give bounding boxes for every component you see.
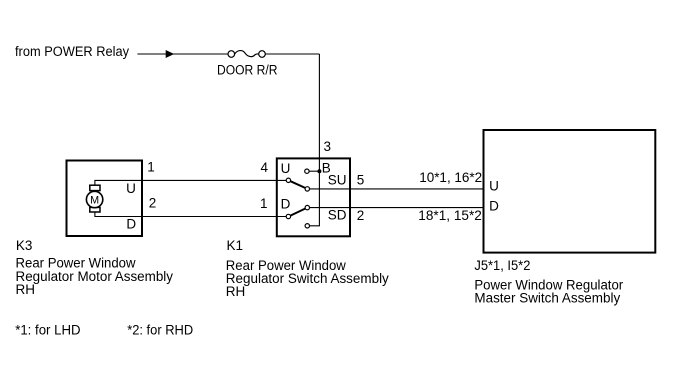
svg-text:U: U <box>281 161 291 176</box>
fuse DOOR R/R <box>228 51 265 58</box>
svg-text:Regulator Switch Assembly: Regulator Switch Assembly <box>226 271 389 286</box>
contact: SD out (lower switch) <box>305 205 309 209</box>
svg-text:from POWER Relay: from POWER Relay <box>15 44 129 59</box>
svg-text:J5*1, I5*2: J5*1, I5*2 <box>474 258 530 273</box>
contact: U common (upper switch) <box>286 178 290 182</box>
motor M (K3) <box>86 185 102 212</box>
junction: B node dot <box>317 169 321 173</box>
svg-text:*1: for LHD: *1: for LHD <box>15 322 81 337</box>
connector J5/I5: master switch box <box>484 130 656 253</box>
svg-text:1: 1 <box>260 196 268 211</box>
svg-text:DOOR R/R: DOOR R/R <box>217 63 278 78</box>
svg-text:Master Switch Assembly: Master Switch Assembly <box>474 291 620 306</box>
contact: B (upper switch) <box>305 169 309 173</box>
wire: motor U lead to pin 1 <box>95 180 286 185</box>
svg-text:D: D <box>489 198 499 213</box>
connector K3: motor assembly box <box>67 161 143 237</box>
contact: D common (lower switch) <box>286 214 290 218</box>
svg-text:2: 2 <box>357 208 365 223</box>
switch blade SD <box>290 209 305 216</box>
switch blade SU <box>290 181 305 188</box>
wire: feed from POWER relay to fuse <box>137 53 228 55</box>
svg-text:Regulator Motor Assembly: Regulator Motor Assembly <box>16 269 174 284</box>
wire: B contact to B line <box>309 170 319 172</box>
svg-text:4: 4 <box>261 160 269 175</box>
svg-text:D: D <box>281 197 291 212</box>
svg-text:SD: SD <box>328 207 347 222</box>
wire: fuse to corner <box>265 53 319 55</box>
svg-text:RH: RH <box>16 282 36 297</box>
svg-text:D: D <box>126 216 136 231</box>
svg-text:M: M <box>90 194 99 206</box>
arrow: current direction <box>166 50 175 58</box>
wire: motor D lead to pin 2 <box>95 212 286 217</box>
wire: SU to master switch <box>310 188 485 190</box>
contact: SU out (upper switch) <box>305 187 309 191</box>
svg-text:K3: K3 <box>16 238 33 253</box>
svg-text:1: 1 <box>147 160 155 175</box>
connector K1: switch assembly box <box>277 158 350 236</box>
svg-text:10*1, 16*2: 10*1, 16*2 <box>419 170 482 185</box>
svg-text:3: 3 <box>324 139 332 154</box>
contact: B side (lower switch) <box>305 224 309 228</box>
svg-text:K1: K1 <box>227 238 244 253</box>
svg-text:U: U <box>126 181 136 196</box>
wire: SD to master switch <box>310 207 485 209</box>
svg-text:18*1, 15*2: 18*1, 15*2 <box>418 208 482 223</box>
wire: vertical drop to B contact and lower contact <box>310 54 320 226</box>
svg-text:RH: RH <box>226 284 246 299</box>
svg-text:U: U <box>489 179 499 194</box>
svg-text:2: 2 <box>149 196 157 211</box>
svg-text:SU: SU <box>328 173 347 188</box>
svg-text:5: 5 <box>357 173 365 188</box>
svg-text:*2: for RHD: *2: for RHD <box>127 322 193 337</box>
